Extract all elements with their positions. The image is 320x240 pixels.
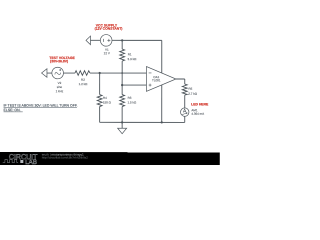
svg-text:LED HERE: LED HERE: [191, 102, 209, 106]
svg-text:2.7 kΩ: 2.7 kΩ: [188, 92, 198, 96]
svg-text:R5: R5: [188, 87, 192, 91]
svg-text:1.2 kΩ: 1.2 kΩ: [79, 82, 89, 86]
svg-text:ELSE: ON.: ELSE: ON.: [4, 108, 21, 112]
svg-text:R1: R1: [128, 52, 132, 56]
svg-text:1.5 kΩ: 1.5 kΩ: [127, 100, 137, 104]
svg-text:TL081: TL081: [152, 78, 161, 82]
svg-text:4.364 mA: 4.364 mA: [191, 112, 204, 116]
svg-text:(12V CONSTANT): (12V CONSTANT): [95, 27, 123, 31]
svg-text:150 Ω: 150 Ω: [103, 100, 112, 104]
svg-text:12 V: 12 V: [104, 51, 110, 55]
svg-text:(30V-36.8V): (30V-36.8V): [50, 59, 68, 63]
svg-text:3.9 kΩ: 3.9 kΩ: [128, 57, 138, 61]
svg-text:http://circuitlab.com/c8b7nhh2: http://circuitlab.com/c8b7nhh2xk9a2: [42, 156, 89, 160]
svg-text:LAB: LAB: [25, 159, 37, 165]
svg-text:IF TEST IS ABOVE 30V: LED WILL: IF TEST IS ABOVE 30V: LED WILL TURN OFF.: [4, 104, 78, 108]
svg-text:R3: R3: [128, 96, 132, 100]
svg-text:1 kHz: 1 kHz: [56, 89, 64, 93]
svg-text:R4: R4: [103, 96, 107, 100]
